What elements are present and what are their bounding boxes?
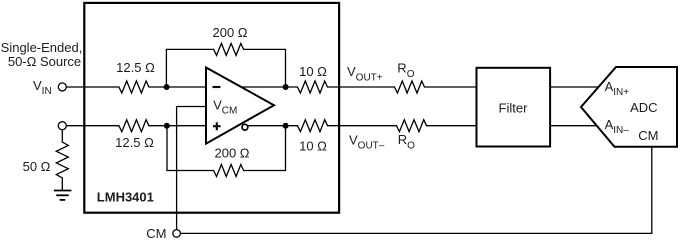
svg-text:CM: CM xyxy=(146,226,166,239)
svg-text:200 Ω: 200 Ω xyxy=(212,25,247,40)
svg-text:10 Ω: 10 Ω xyxy=(299,64,327,79)
svg-text:CM: CM xyxy=(638,128,658,143)
svg-text:12.5 Ω: 12.5 Ω xyxy=(115,135,154,150)
svg-text:10 Ω: 10 Ω xyxy=(299,139,327,154)
svg-text:12.5 Ω: 12.5 Ω xyxy=(116,60,155,75)
svg-text:50 Ω: 50 Ω xyxy=(23,159,51,174)
svg-text:ADC: ADC xyxy=(630,100,657,115)
svg-text:LMH3401: LMH3401 xyxy=(97,190,154,205)
svg-text:200 Ω: 200 Ω xyxy=(214,146,249,161)
svg-text:Filter: Filter xyxy=(499,101,529,116)
svg-text:Single-Ended,: Single-Ended, xyxy=(1,40,83,55)
svg-text:50-Ω Source: 50-Ω Source xyxy=(8,54,81,69)
